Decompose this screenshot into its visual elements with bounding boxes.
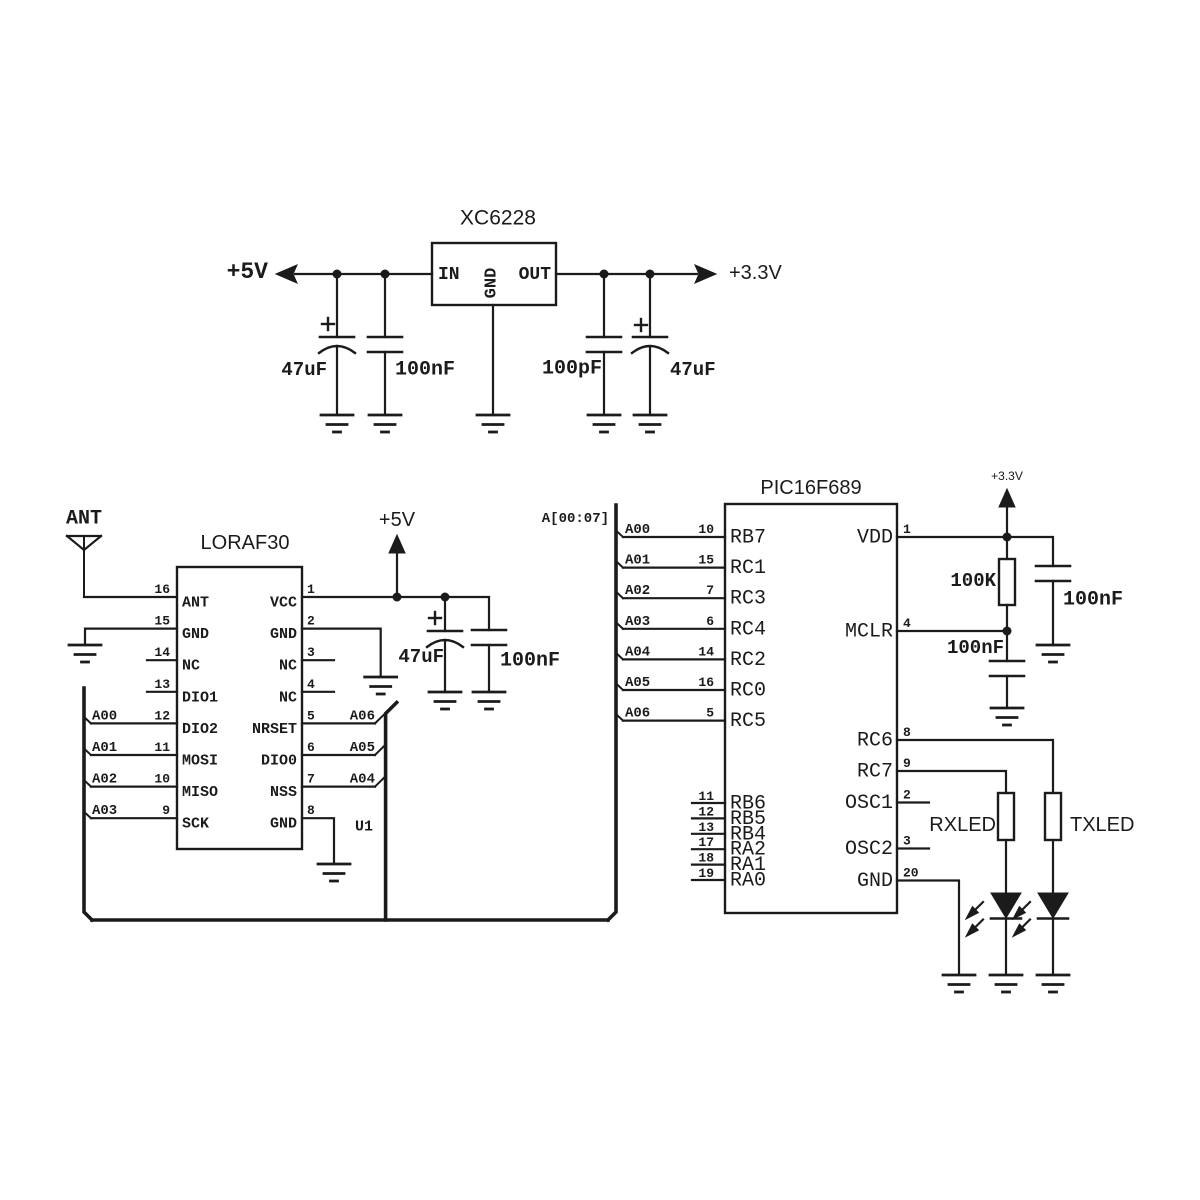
svg-text:A02: A02 (625, 583, 650, 599)
wire net A02 to U1 (85, 781, 178, 787)
junction on +5V rail (C1) (333, 270, 342, 279)
svg-text:7: 7 (706, 583, 714, 598)
U2 pin 14 number (698, 644, 714, 659)
svg-text:GND: GND (270, 626, 297, 643)
junction on 3.3V rail (C4) (646, 270, 655, 279)
value label 100nF (C8) (1063, 589, 1123, 612)
svg-text:A00: A00 (625, 522, 650, 538)
junction VCC (+5V arrow) (393, 593, 402, 602)
net label +5V (227, 259, 269, 285)
svg-text:2: 2 (307, 614, 315, 629)
U2 pin 16 number (698, 675, 714, 690)
wire net A03 to U1 (85, 812, 178, 818)
value label 100nF (C7) (947, 637, 1004, 659)
svg-text:GND: GND (857, 870, 893, 893)
U1 pin 11 label MOSI (154, 740, 218, 770)
svg-text:RC3: RC3 (730, 588, 766, 611)
wire U2 VDD rail (897, 537, 1053, 566)
U2 pin label RC0 (730, 680, 766, 703)
svg-text:13: 13 (154, 677, 170, 692)
svg-text:15: 15 (154, 614, 170, 629)
svg-text:1: 1 (307, 582, 315, 597)
svg-text:5: 5 (307, 708, 315, 723)
svg-text:RXLED: RXLED (929, 814, 996, 836)
U1 pin 15 label GND (154, 614, 209, 644)
svg-text:OSC1: OSC1 (845, 792, 893, 815)
net label +5V (U1) (379, 509, 416, 531)
label RXLED (929, 814, 996, 836)
svg-text:12: 12 (698, 804, 714, 819)
svg-text:DIO2: DIO2 (182, 721, 218, 738)
U1 pin 9 label SCK (162, 803, 209, 833)
bus name label A[00:07] (542, 511, 609, 527)
U2 pin 3 label OSC2 (845, 834, 911, 862)
svg-text:NSS: NSS (270, 784, 297, 801)
U2 pin 4 label MCLR (845, 616, 911, 644)
LED D2 (TX) (1038, 840, 1068, 973)
stub U1 pin 13 DIO1 (147, 691, 177, 693)
svg-text:RB7: RB7 (730, 527, 766, 550)
svg-text:8: 8 (307, 803, 315, 818)
svg-text:LORAF30: LORAF30 (201, 532, 290, 554)
ground (C6) (473, 692, 505, 709)
bus (left vertical, A[00:07]) (84, 688, 92, 920)
net label A06 (350, 708, 375, 724)
U2 pin 8 label RC6 (857, 725, 911, 753)
svg-text:3: 3 (903, 834, 911, 849)
svg-text:19: 19 (698, 866, 714, 881)
ground (D2) (1037, 975, 1069, 992)
capacitor C2 100nF (input) (368, 274, 402, 415)
svg-text:1: 1 (903, 522, 911, 537)
svg-text:U1: U1 (355, 819, 373, 836)
value label 47uF (C4) (670, 359, 716, 381)
ground (C3) (588, 415, 620, 432)
U2 pin 7 number (706, 583, 714, 598)
net label A01 (PIC side) (625, 553, 650, 569)
svg-text:9: 9 (903, 756, 911, 771)
wire U1 pin 8 GND (302, 818, 334, 862)
U2 pin label RA0 (730, 870, 766, 893)
net label ANT (66, 508, 102, 531)
svg-text:MCLR: MCLR (845, 621, 893, 644)
svg-text:VCC: VCC (270, 595, 297, 612)
stub U2 pin 17 RA2 (692, 835, 725, 850)
svg-text:100nF: 100nF (1063, 589, 1123, 612)
value label 47uF (C5) (398, 646, 444, 668)
svg-text:A01: A01 (92, 740, 117, 756)
svg-text:OUT: OUT (519, 265, 552, 285)
svg-text:18: 18 (698, 851, 714, 866)
U2 pin label RB4 (730, 823, 766, 846)
U2 pin 2 label OSC1 (845, 788, 911, 816)
antenna symbol (67, 536, 101, 597)
value label 100pF (C3) (542, 358, 602, 381)
U1 pin 13 label DIO1 (154, 677, 218, 707)
net label A01 (92, 740, 117, 756)
U1 pin 4 label NC (279, 677, 315, 707)
svg-text:47uF: 47uF (670, 359, 716, 381)
svg-text:ANT: ANT (182, 595, 209, 612)
U1 pin 16 label ANT (154, 582, 209, 612)
U2 pin 20 label GND (857, 866, 919, 894)
U1 pin 7 label NSS (270, 772, 315, 802)
U1 pin 5 label NRSET (252, 708, 315, 738)
svg-text:7: 7 (307, 772, 315, 787)
svg-text:A03: A03 (92, 803, 117, 819)
U2 pin 15 number (698, 553, 714, 568)
net label A00 (PIC side) (625, 522, 650, 538)
RF module U1 LORAF30 (177, 532, 302, 849)
U2 pin label RA2 (730, 839, 766, 862)
bus (bottom horizontal run) (92, 918, 608, 922)
wire net A01 bus to U2 (616, 561, 725, 568)
svg-text:11: 11 (698, 789, 714, 804)
capacitor C4 47uF (polarized, output) (632, 274, 668, 415)
svg-text:14: 14 (698, 644, 714, 659)
svg-text:47uF: 47uF (281, 359, 327, 381)
wire net A06 bus to U2 (616, 714, 725, 721)
U2 pin 9 label RC7 (857, 756, 911, 784)
net label A02 (92, 772, 117, 788)
ground (U1 pin 15) (69, 645, 101, 662)
svg-text:GND: GND (270, 816, 297, 833)
wire net A04 from U1 (302, 776, 386, 786)
ground (C5) (429, 692, 461, 709)
stub U1 pin 4 NC (302, 691, 334, 693)
svg-text:16: 16 (698, 675, 714, 690)
wire net A02 bus to U2 (616, 592, 725, 599)
ground (C2) (369, 415, 401, 432)
svg-text:RC1: RC1 (730, 557, 766, 580)
net label A04 (350, 772, 375, 788)
capacitor C6 100nF (U1 VCC) (472, 630, 506, 692)
LED D1 emission arrows (967, 902, 984, 936)
stub U2 pin 13 RB4 (692, 820, 725, 835)
wire U1 pin 2 GND (302, 629, 381, 675)
svg-text:17: 17 (698, 835, 714, 850)
svg-text:13: 13 (698, 820, 714, 835)
wire U2 RC7 to RXLED resistor (897, 771, 1006, 793)
svg-text:A06: A06 (350, 708, 375, 724)
U2 pin label RC1 (730, 557, 766, 580)
net label +3.3V (729, 262, 782, 284)
ground (U1 pin 2) (365, 677, 397, 694)
svg-text:9: 9 (162, 803, 170, 818)
wire ANT to U1 pin 16 (84, 596, 177, 598)
net label A03 (92, 803, 117, 819)
capacitor C5 47uF (polarized, U1 VCC) (427, 597, 463, 692)
junction on 3.3V rail (C3) (600, 270, 609, 279)
svg-text:12: 12 (154, 708, 170, 723)
svg-text:A03: A03 (625, 614, 650, 630)
U2 pin 10 number (698, 522, 714, 537)
ground (C7) (991, 708, 1023, 725)
bus (middle vertical, A04-A06) (386, 703, 397, 921)
svg-text:8: 8 (903, 725, 911, 740)
refdes label U1 (355, 819, 373, 836)
power arrow +3.3V (right) (695, 265, 716, 283)
svg-text:TXLED: TXLED (1070, 814, 1134, 836)
U1 pin 8 label GND (270, 803, 315, 833)
U2 pin label RB5 (730, 808, 766, 831)
svg-text:DIO1: DIO1 (182, 689, 218, 706)
wire net A05 from U1 (302, 745, 386, 755)
svg-text:+5V: +5V (227, 259, 269, 285)
svg-text:A04: A04 (350, 772, 375, 788)
svg-text:A00: A00 (92, 708, 117, 724)
capacitor C8 100nF (VDD) (1036, 566, 1070, 644)
svg-text:DIO0: DIO0 (261, 753, 297, 770)
svg-text:RA0: RA0 (730, 870, 766, 893)
svg-text:100pF: 100pF (542, 358, 602, 381)
svg-text:NC: NC (279, 689, 297, 706)
svg-text:A05: A05 (625, 675, 650, 691)
U2 pin label RC3 (730, 588, 766, 611)
U1 pin 14 label NC (154, 645, 200, 675)
net label A06 (PIC side) (625, 706, 650, 722)
value label 100nF (C6) (500, 650, 560, 673)
svg-text:100nF: 100nF (947, 637, 1004, 659)
svg-text:MISO: MISO (182, 784, 218, 801)
svg-text:PIC16F689: PIC16F689 (760, 477, 861, 499)
svg-text:A05: A05 (350, 740, 375, 756)
svg-text:IN: IN (438, 265, 460, 285)
resistor R2 (RXLED) (998, 793, 1014, 840)
svg-text:RC6: RC6 (857, 730, 893, 753)
net label A05 (PIC side) (625, 675, 650, 691)
wire net A00 to U1 (85, 717, 178, 723)
microcontroller U2 PIC16F689 (725, 477, 897, 913)
wire net A04 bus to U2 (616, 653, 725, 660)
U2 pin 5 number (706, 706, 714, 721)
wire U1 pin 15 GND (85, 629, 177, 643)
svg-text:A04: A04 (625, 644, 650, 660)
svg-text:20: 20 (903, 866, 919, 881)
stub U1 pin 14 NC (147, 659, 177, 661)
junction on +5V rail (C2) (381, 270, 390, 279)
svg-text:100K: 100K (950, 570, 996, 592)
svg-text:100nF: 100nF (395, 359, 455, 382)
svg-text:+3.3V: +3.3V (729, 262, 782, 284)
U1 pin 2 label GND (270, 614, 315, 644)
resistor R1 100K (999, 537, 1015, 631)
svg-text:GND: GND (483, 268, 502, 299)
ground (D1) (990, 975, 1022, 992)
U2 pin 1 label VDD (857, 522, 911, 550)
svg-text:4: 4 (307, 677, 315, 692)
svg-text:A06: A06 (625, 706, 650, 722)
stub U2 pin 18 RA1 (692, 851, 725, 866)
U1 pin 12 label DIO2 (154, 708, 218, 738)
stub U2 pin 11 RB6 (692, 789, 725, 804)
svg-text:MOSI: MOSI (182, 753, 218, 770)
wire net A06 from U1 (302, 713, 386, 723)
stub U1 pin 3 NC (302, 659, 334, 661)
U1 pin 3 label NC (279, 645, 315, 675)
junction MCLR (1003, 627, 1012, 636)
svg-text:SCK: SCK (182, 816, 209, 833)
net label A02 (PIC side) (625, 583, 650, 599)
svg-text:ANT: ANT (66, 508, 102, 531)
ground (regulator GND) (477, 415, 509, 432)
svg-text:100nF: 100nF (500, 650, 560, 673)
value label 100K (R1) (950, 570, 996, 592)
svg-text:10: 10 (698, 522, 714, 537)
net label +3.3V (U2) (991, 469, 1023, 483)
LED D1 (RX) (991, 840, 1021, 973)
net label A04 (PIC side) (625, 644, 650, 660)
U2 pin label RC2 (730, 649, 766, 672)
wire net A03 bus to U2 (616, 622, 725, 629)
stub U2 pin 12 RB5 (692, 804, 725, 819)
svg-text:14: 14 (154, 645, 170, 660)
U2 pin label RC5 (730, 710, 766, 733)
svg-text:A01: A01 (625, 553, 650, 569)
bus (right vertical, to PIC) (608, 505, 616, 920)
svg-text:RC2: RC2 (730, 649, 766, 672)
U2 pin label RA1 (730, 854, 766, 877)
junction VDD (+3.3V/100K) (1003, 533, 1012, 542)
LED D2 emission arrows (1014, 902, 1031, 936)
wire U2 MCLR (897, 630, 1007, 632)
ground (C4) (634, 415, 666, 432)
svg-text:RC5: RC5 (730, 710, 766, 733)
net label A03 (PIC side) (625, 614, 650, 630)
stub U2 OSC2 (897, 847, 929, 849)
svg-text:OSC2: OSC2 (845, 838, 893, 861)
svg-text:3: 3 (307, 645, 315, 660)
wire +5V rail to regulator IN (295, 273, 432, 275)
ground (C1) (321, 415, 353, 432)
ground (C8) (1037, 645, 1069, 662)
svg-text:VDD: VDD (857, 527, 893, 550)
wire net A01 to U1 (85, 749, 178, 755)
svg-text:RC7: RC7 (857, 761, 893, 784)
svg-text:16: 16 (154, 582, 170, 597)
U1 pin 10 label MISO (154, 772, 218, 802)
U2 pin label RB6 (730, 793, 766, 816)
power arrow +5V (left) (276, 265, 297, 283)
wire U2 RC6 to TXLED resistor (897, 740, 1053, 793)
capacitor C7 100nF (MCLR) (990, 631, 1024, 707)
svg-text:NC: NC (279, 658, 297, 675)
U1 pin 1 label VCC (270, 582, 315, 612)
stub U2 pin 19 RA0 (692, 866, 725, 881)
svg-text:47uF: 47uF (398, 646, 444, 668)
svg-text:GND: GND (182, 626, 209, 643)
label TXLED (1070, 814, 1134, 836)
svg-text:5: 5 (706, 706, 714, 721)
svg-text:A02: A02 (92, 772, 117, 788)
svg-text:2: 2 (903, 788, 911, 803)
svg-text:10: 10 (154, 772, 170, 787)
svg-text:RC0: RC0 (730, 680, 766, 703)
svg-text:15: 15 (698, 553, 714, 568)
U1 pin 6 label DIO0 (261, 740, 315, 770)
svg-text:11: 11 (154, 740, 170, 755)
svg-text:+5V: +5V (379, 509, 416, 531)
wire regulator OUT to +3.3V (556, 273, 697, 275)
ground (U1 pin 8) (318, 864, 350, 881)
wire net A00 bus to U2 (616, 531, 725, 538)
power arrow +3.3V (U2) (999, 489, 1015, 537)
capacitor C3 100pF (output) (587, 274, 621, 415)
junction VCC (C5) (441, 593, 450, 602)
svg-text:NRSET: NRSET (252, 721, 297, 738)
svg-text:NC: NC (182, 658, 200, 675)
svg-text:XC6228: XC6228 (460, 207, 536, 230)
svg-text:4: 4 (903, 616, 911, 631)
net label A00 (92, 708, 117, 724)
svg-text:RC4: RC4 (730, 618, 766, 641)
power arrow +5V (U1) (389, 535, 405, 597)
capacitor C1 47uF (polarized, input) (319, 274, 355, 415)
ground (U2 GND) (943, 975, 975, 992)
stub U2 OSC1 (897, 801, 929, 803)
U2 pin 6 number (706, 614, 714, 629)
U2 pin label RB7 (730, 527, 766, 550)
wire U2 pin 20 GND (897, 881, 959, 974)
U2 pin label RC4 (730, 618, 766, 641)
svg-text:+3.3V: +3.3V (991, 469, 1023, 483)
value label 47uF (C1) (281, 359, 327, 381)
wire net A05 bus to U2 (616, 684, 725, 691)
svg-text:6: 6 (706, 614, 714, 629)
svg-text:6: 6 (307, 740, 315, 755)
voltage regulator U3 XC6228 (432, 207, 556, 306)
wire U1 pin 1 VCC rail (302, 597, 489, 630)
value label 100nF (C2) (395, 359, 455, 382)
net label A05 (350, 740, 375, 756)
wire regulator GND pin down (492, 305, 494, 415)
resistor R3 (TXLED) (1045, 793, 1061, 840)
svg-text:A[00:07]: A[00:07] (542, 511, 609, 527)
